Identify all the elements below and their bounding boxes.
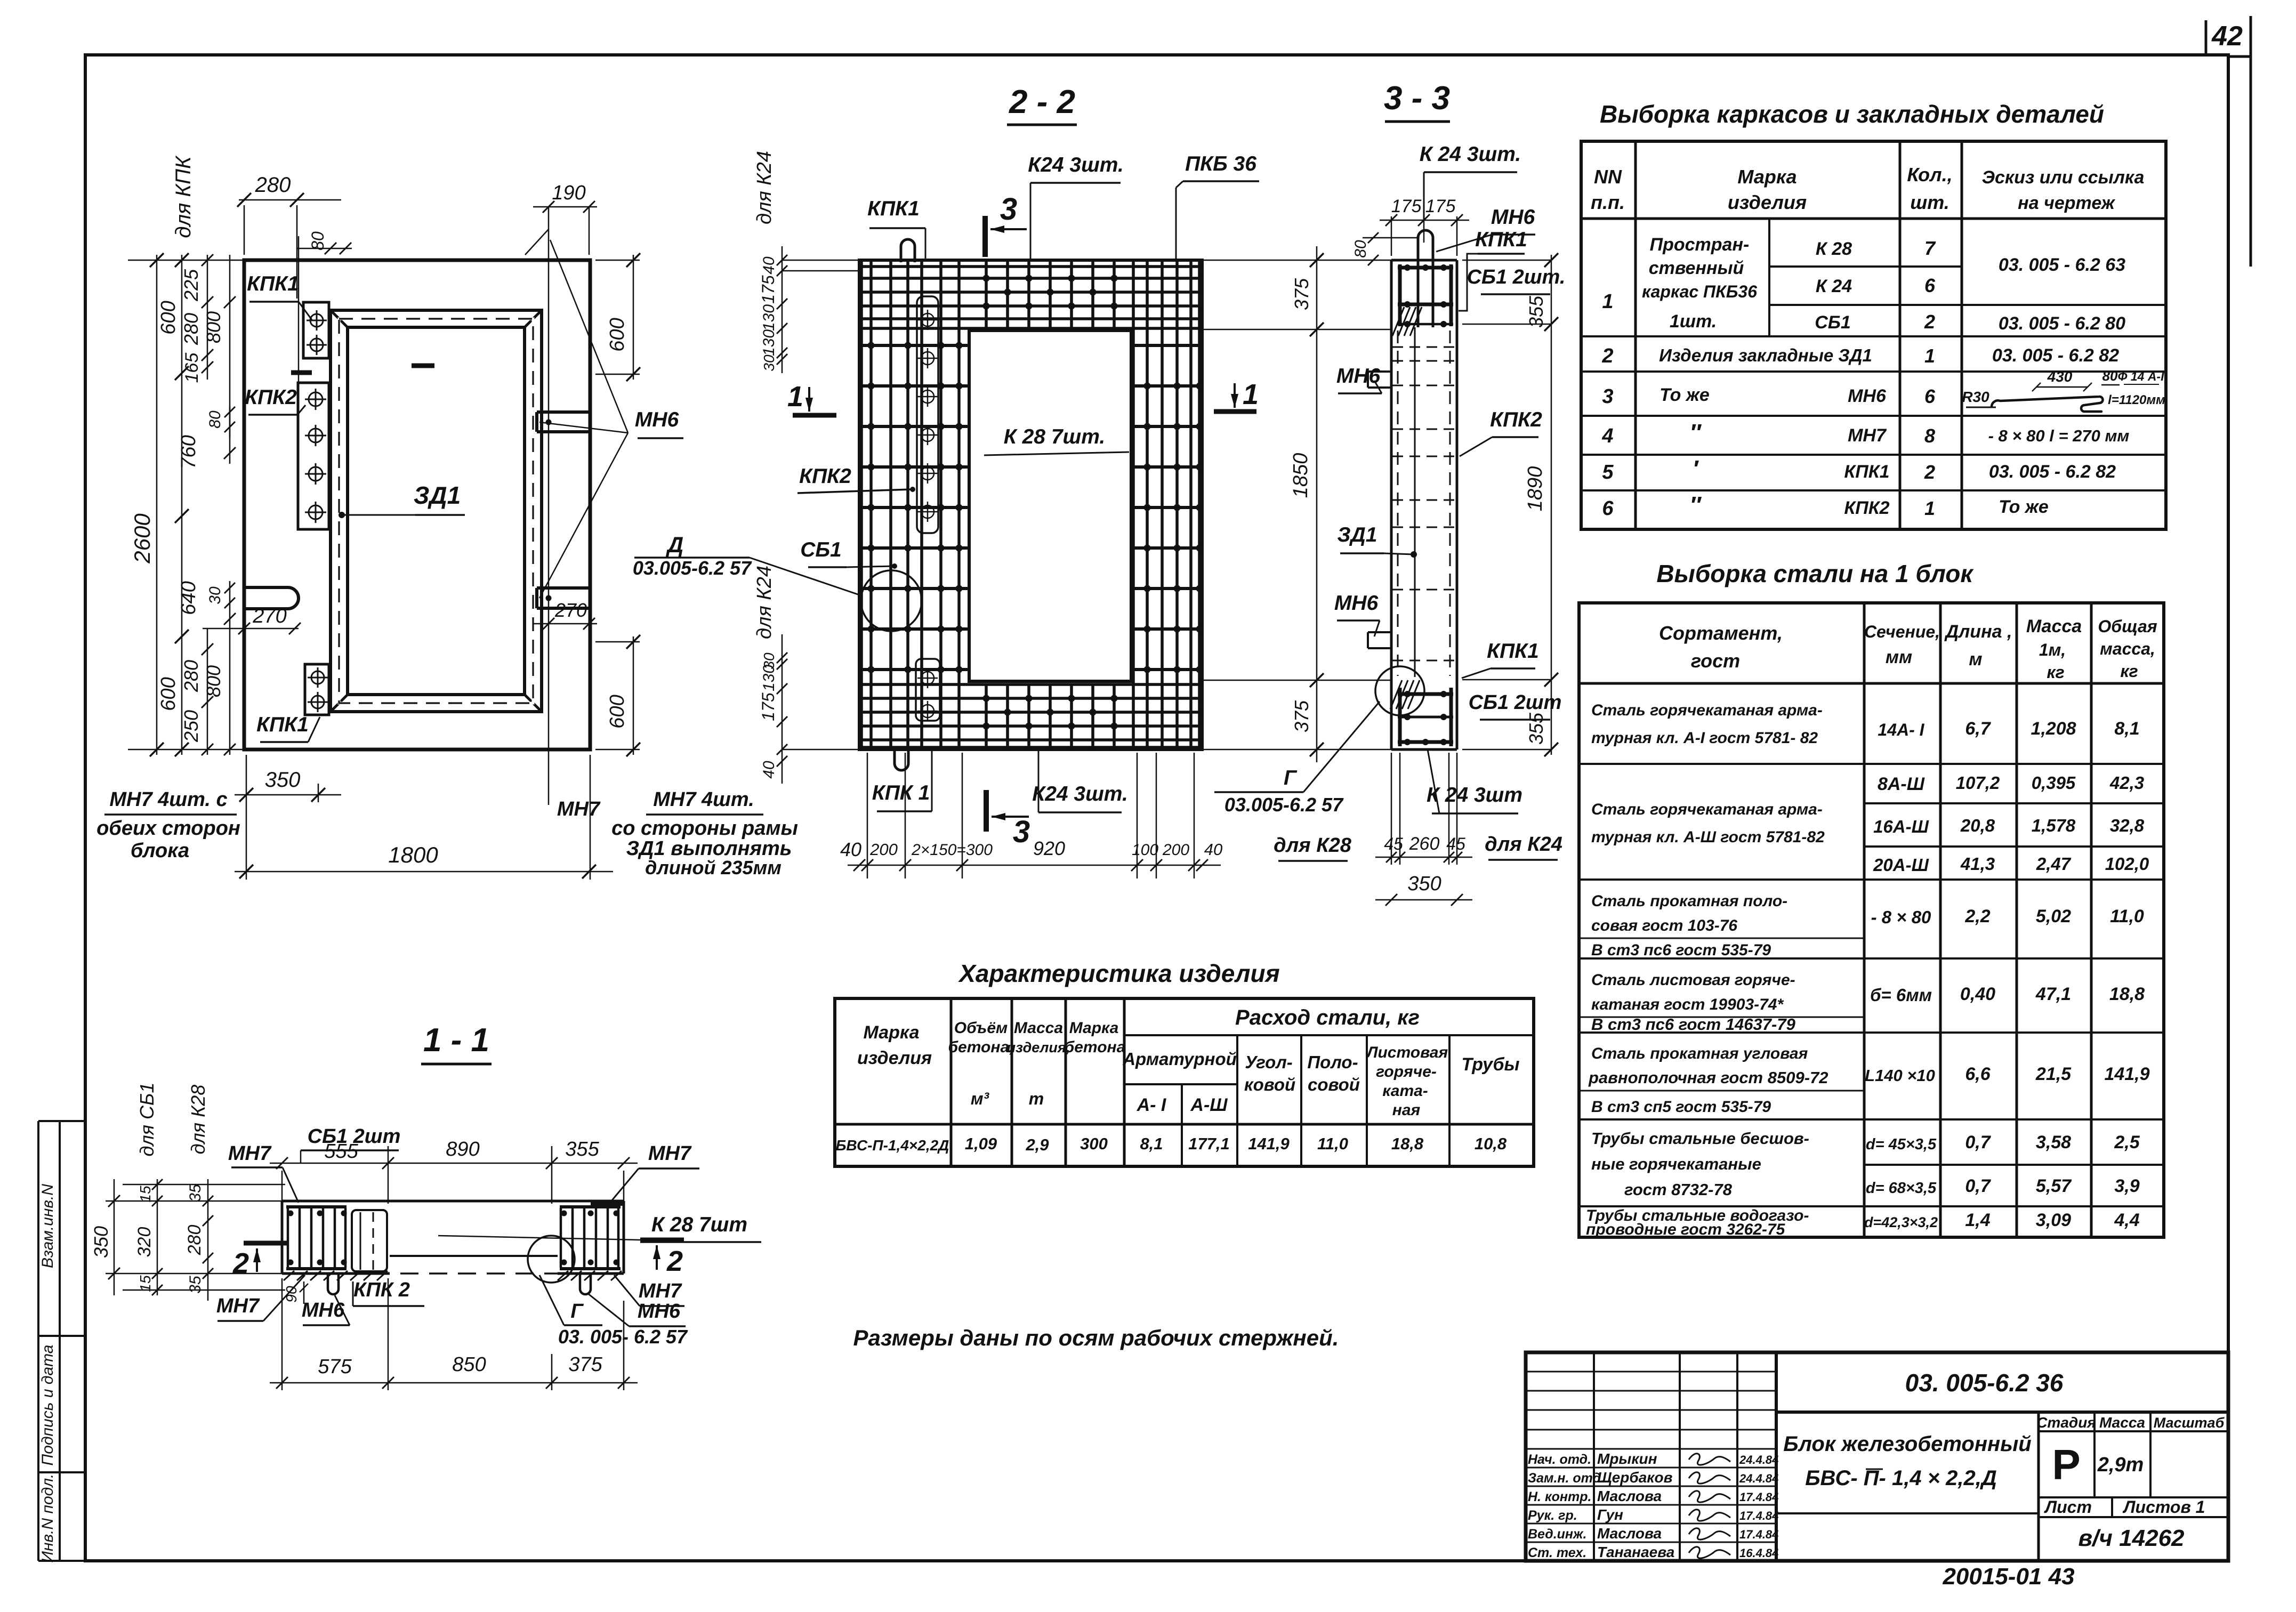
label KPK1 (3-3 right bottom) [1462, 640, 1539, 678]
svg-text:03.005-6.2 57: 03.005-6.2 57 [1224, 794, 1344, 816]
svg-text:Объём: Объём [954, 1019, 1008, 1037]
table 1 row 1 [1602, 235, 2125, 334]
svg-text:совая гост 103-76: совая гост 103-76 [1591, 917, 1737, 934]
table 2 row angle steel [1579, 1045, 2150, 1116]
svg-text:КПК1: КПК1 [1475, 228, 1527, 251]
svg-text:2 - 2: 2 - 2 [1009, 84, 1075, 120]
svg-text:280: 280 [255, 173, 291, 197]
svg-text:47,1: 47,1 [2035, 984, 2071, 1004]
svg-text:Длина ,: Длина , [1944, 622, 2012, 642]
svg-text:850: 850 [452, 1353, 486, 1376]
1-1 label MN7 top left [228, 1142, 299, 1203]
svg-text:03. 005 - 6.2 80: 03. 005 - 6.2 80 [1999, 313, 2125, 334]
label SB1 2sht (3-3 top right) [1467, 266, 1566, 294]
svg-text:для К24: для К24 [1485, 833, 1562, 856]
1-1 label MN7 bottom left [216, 1275, 305, 1321]
3-3 top dimension 175/175 [1380, 196, 1469, 256]
svg-text:1,09: 1,09 [965, 1134, 997, 1153]
svg-text:100: 100 [1132, 841, 1158, 859]
svg-text:600: 600 [157, 677, 180, 711]
svg-text:совой: совой [1308, 1075, 1360, 1094]
svg-text:Выборка стали на 1: Выборка стали на 1 блок [1656, 560, 1974, 587]
svg-text:гост: гост [1691, 650, 1740, 672]
svg-text:3: 3 [1000, 192, 1017, 227]
svg-text:для КПК: для КПК [172, 155, 195, 238]
table 2 row strip steel [1579, 892, 2144, 959]
label PKB36 with leader [1176, 152, 1259, 260]
svg-text:107,2: 107,2 [1956, 773, 2000, 793]
svg-text:17.4.84: 17.4.84 [1739, 1490, 1778, 1504]
svg-text:КПК1: КПК1 [867, 197, 920, 220]
svg-text:Марка: Марка [1069, 1019, 1119, 1037]
svg-text:изделия,: изделия, [1007, 1039, 1070, 1055]
dimension chain 600/760/640/600 [157, 253, 200, 756]
svg-text:3: 3 [1602, 385, 1613, 408]
1-1 label SB1 2sht [301, 1125, 400, 1163]
svg-text:320: 320 [134, 1227, 155, 1258]
svg-text:К 24: К 24 [1816, 276, 1852, 296]
svg-text:430: 430 [2047, 368, 2073, 385]
callout D 03.005-6.2 57 (front) [633, 532, 863, 596]
svg-text:15: 15 [137, 1186, 154, 1203]
svg-text:ная: ная [1392, 1101, 1421, 1119]
svg-text:м³: м³ [971, 1089, 990, 1108]
label MN6 (3-3 left top) [1336, 365, 1382, 393]
table 2 header [1659, 616, 2157, 682]
table 2 row A-I [1591, 702, 2140, 747]
svg-text:11,0: 11,0 [1317, 1134, 1348, 1153]
right dimension 270 / 600 bottom [533, 599, 640, 756]
svg-text:130: 130 [760, 304, 778, 331]
svg-text:4,4: 4,4 [2114, 1210, 2139, 1230]
svg-text:А-Ш: А-Ш [1190, 1095, 1228, 1115]
svg-text:Лист: Лист [2044, 1497, 2092, 1517]
svg-text:1850: 1850 [1290, 453, 1312, 498]
svg-text:″: ″ [1689, 492, 1702, 518]
svg-text:20015-01 43: 20015-01 43 [1942, 1563, 2074, 1590]
svg-text:Сталь прокатная угловая: Сталь прокатная угловая [1591, 1045, 1808, 1062]
detail circle G on 3-3 [1375, 666, 1424, 715]
svg-text:41,3: 41,3 [1960, 854, 1995, 874]
svg-text:760: 760 [178, 435, 200, 469]
svg-text:Взам.инв.N: Взам.инв.N [39, 1184, 57, 1268]
svg-text:0,40: 0,40 [1960, 984, 1995, 1004]
svg-text:375: 375 [1291, 278, 1312, 310]
dimension chain 800 / 80 / 30 [203, 255, 301, 755]
svg-text:d=42,3×3,2: d=42,3×3,2 [1864, 1214, 1938, 1230]
svg-text:350: 350 [265, 768, 301, 792]
svg-text:Простран-: Простран- [1650, 235, 1750, 255]
svg-text:обеих сторон: обеих сторон [96, 817, 240, 840]
svg-text:45: 45 [1446, 834, 1465, 853]
top dimension 280 [237, 173, 341, 299]
svg-text:640: 640 [178, 581, 200, 615]
svg-text:МН6: МН6 [1334, 592, 1379, 615]
svg-text:Листовая: Листовая [1366, 1044, 1448, 1061]
svg-text:кг: кг [2047, 663, 2064, 682]
svg-text:МН7: МН7 [639, 1280, 682, 1302]
svg-text:МН7: МН7 [216, 1295, 260, 1317]
svg-text:l=1120мм: l=1120мм [2108, 393, 2165, 407]
svg-text:А- I: А- I [1137, 1095, 1167, 1115]
label K24 3sht bottom [1032, 749, 1128, 812]
svg-text:КПК 1: КПК 1 [872, 781, 930, 804]
svg-text:Сечение,: Сечение, [1864, 622, 1940, 641]
2-2 left dimension chain [753, 151, 859, 784]
svg-text:32,8: 32,8 [2110, 816, 2145, 835]
svg-text:280: 280 [180, 313, 202, 345]
1-1 labels MN7/MN6 right [587, 1275, 686, 1326]
1-1 label KPK2 [353, 1279, 424, 1306]
svg-text:2,9: 2,9 [1025, 1135, 1049, 1154]
label K24 3sht (3-3 top) [1420, 143, 1521, 220]
detail circle D on 2-2 [861, 570, 922, 631]
section marker 1 left [787, 381, 836, 415]
svg-text:45: 45 [1384, 834, 1403, 853]
top dimension 190 [525, 182, 597, 805]
svg-text:18,8: 18,8 [2109, 984, 2145, 1004]
svg-text:10,8: 10,8 [1475, 1134, 1507, 1153]
right dimension 600 top [595, 253, 640, 381]
top dimension 80 [297, 231, 352, 254]
svg-text:б= 6мм: б= 6мм [1870, 985, 1932, 1005]
svg-text:для К24: для К24 [753, 151, 776, 224]
svg-text:проводные гост 3262-75: проводные гост 3262-75 [1586, 1221, 1786, 1238]
svg-text:ковой: ковой [1244, 1075, 1295, 1094]
title block signature grid [1526, 1352, 1776, 1561]
svg-text:Листов 1: Листов 1 [2123, 1497, 2205, 1517]
3-3 bottom cage SB1 [1390, 680, 1453, 746]
svg-text:МН6: МН6 [1491, 206, 1535, 229]
label dlya K28 [1274, 834, 1352, 861]
svg-text:К 28 7шт: К 28 7шт [651, 1213, 747, 1236]
svg-text:20А-Ш: 20А-Ш [1873, 855, 1929, 875]
svg-text:Трубы стальные бесшов-: Трубы стальные бесшов- [1591, 1129, 1809, 1148]
svg-text:355: 355 [565, 1138, 599, 1160]
svg-text:Мрыкин: Мрыкин [1597, 1450, 1657, 1467]
3-3 MN6 hairpin top [1418, 230, 1433, 327]
svg-text:190: 190 [552, 182, 585, 204]
table 1 row 4 [1601, 420, 2129, 447]
svg-text:350: 350 [1407, 873, 1441, 895]
svg-text:блока: блока [131, 840, 189, 862]
section 2-2 title [1007, 84, 1077, 125]
svg-text:NN: NN [1594, 166, 1622, 188]
svg-text:равнополочная гост 8509-72: равнополочная гост 8509-72 [1588, 1068, 1828, 1087]
svg-text:К24 3шт.: К24 3шт. [1032, 783, 1128, 805]
note MN7 4sht both sides [96, 788, 240, 862]
svg-text:1,4: 1,4 [1965, 1210, 1990, 1230]
svg-text:3,58: 3,58 [2036, 1132, 2071, 1152]
svg-text:Г: Г [1284, 767, 1298, 789]
svg-text:1890: 1890 [1524, 466, 1546, 512]
svg-text:МН7: МН7 [1848, 425, 1887, 446]
1-1 bottom dimension chain 575/850/375 [270, 1278, 638, 1390]
2-2 bottom dimension chain [840, 753, 1222, 878]
svg-text:03. 005 - 6.2 63: 03. 005 - 6.2 63 [1999, 255, 2125, 275]
svg-text:Сталь горячекатаная арма-: Сталь горячекатаная арма- [1591, 801, 1823, 818]
svg-text:катаная гост 19903-74*: катаная гост 19903-74* [1591, 996, 1784, 1013]
label K24 3sht top with leader [1028, 154, 1124, 260]
dimension chain 2600 [128, 253, 244, 756]
svg-text:Сталь прокатная поло-: Сталь прокатная поло- [1591, 892, 1787, 910]
dimension chain 375/1850/375 [1202, 246, 1391, 762]
1-1 left cage [284, 1207, 388, 1280]
label MN6 with three leaders [539, 240, 683, 598]
svg-text:175: 175 [1391, 196, 1422, 216]
svg-text:5,02: 5,02 [2036, 906, 2071, 926]
label MN6 (3-3 left bottom) [1334, 592, 1380, 636]
svg-text:d= 45×3,5: d= 45×3,5 [1866, 1136, 1937, 1153]
note MN7 right [557, 788, 798, 878]
svg-text:То же: То же [1999, 497, 2049, 517]
svg-text:Тананаева: Тананаева [1597, 1544, 1674, 1560]
svg-text:Гун: Гун [1597, 1506, 1623, 1523]
svg-text:2,47: 2,47 [2036, 854, 2072, 874]
title block signatures text [1528, 1450, 1778, 1560]
svg-text:2: 2 [1601, 345, 1613, 367]
label dlya K24 [1485, 833, 1562, 860]
svg-text:В ст3 сп5 гост 535-79: В ст3 сп5 гост 535-79 [1591, 1098, 1771, 1116]
svg-text:165: 165 [182, 353, 202, 383]
svg-text:2,2: 2,2 [1964, 906, 1990, 926]
svg-text:2,5: 2,5 [2114, 1132, 2140, 1152]
svg-text:141,9: 141,9 [2104, 1064, 2149, 1084]
table 1 row 6 [1602, 492, 2048, 520]
svg-text:270: 270 [252, 605, 286, 627]
svg-text:30: 30 [206, 586, 224, 604]
svg-text:6: 6 [1924, 385, 1936, 407]
svg-text:16.4.84: 16.4.84 [1739, 1546, 1778, 1560]
callout G 03.005-6.2 57 [1214, 702, 1380, 816]
svg-text:БВС- П- 1,4 × 2,2,Д: БВС- П- 1,4 × 2,2,Д [1805, 1466, 1997, 1490]
label K24 3sht (3-3 bottom) [1427, 749, 1522, 813]
svg-text:КПК1: КПК1 [1844, 462, 1889, 482]
label KPK1 bottom [256, 713, 320, 742]
svg-text:БВС-П-1,4×2,2Д: БВС-П-1,4×2,2Д [836, 1137, 949, 1154]
svg-text:3,09: 3,09 [2036, 1210, 2071, 1230]
svg-text:8,1: 8,1 [1140, 1134, 1163, 1153]
svg-text:375: 375 [1291, 700, 1312, 732]
svg-text:890: 890 [446, 1138, 479, 1160]
1-1 label K28 7sht [438, 1213, 761, 1242]
svg-text:260: 260 [1409, 834, 1440, 854]
plate KPK2 [298, 383, 329, 529]
svg-text:16А-Ш: 16А-Ш [1873, 817, 1929, 836]
table 2: steel selection [1579, 603, 2164, 1237]
svg-text:0,7: 0,7 [1965, 1176, 1991, 1196]
svg-text:Щербаков: Щербаков [1597, 1469, 1673, 1486]
svg-text:мм: мм [1886, 647, 1912, 667]
svg-text:1,578: 1,578 [2032, 816, 2076, 835]
3-3 MN6 left tabs [1368, 372, 1391, 648]
3-3 top cage SB1 [1392, 264, 1453, 336]
svg-text:Эскиз или ссылка: Эскиз или ссылка [1982, 167, 2145, 188]
svg-text:Вед.инж.: Вед.инж. [1528, 1527, 1586, 1542]
3-3 right chain 355/1890/355 [1462, 253, 1558, 756]
svg-text:Г: Г [570, 1300, 584, 1323]
svg-text:1: 1 [1924, 345, 1935, 367]
svg-text:15: 15 [137, 1275, 154, 1292]
svg-text:1: 1 [787, 381, 803, 413]
vertical label for KPK [172, 155, 299, 384]
svg-text:Подпись и дата: Подпись и дата [39, 1345, 57, 1466]
svg-text:гост 8732-78: гост 8732-78 [1624, 1180, 1733, 1199]
svg-text:355: 355 [1525, 295, 1547, 328]
section 2-2 rebar grid [860, 261, 1203, 748]
svg-text:Блок железобетонный: Блок железобетонный [1783, 1432, 2032, 1456]
svg-text:1,208: 1,208 [2031, 719, 2076, 739]
svg-text:6: 6 [1924, 275, 1936, 296]
svg-text:Сталь горячекатаная арма-: Сталь горячекатаная арма- [1591, 702, 1823, 719]
svg-text:КПК1: КПК1 [247, 272, 299, 295]
svg-text:Трубы: Трубы [1461, 1054, 1519, 1075]
svg-text:СБ1: СБ1 [1815, 312, 1851, 333]
3-3 column internals [1392, 327, 1456, 677]
svg-text:200: 200 [1162, 841, 1189, 859]
anchor MN6 right tabs [537, 412, 590, 608]
svg-text:масса,: масса, [2100, 639, 2155, 658]
label KPK2 (2-2) [797, 465, 915, 493]
section marker 3 bottom [986, 790, 1030, 849]
svg-text:- 8 × 80 l = 270 мм: - 8 × 80 l = 270 мм [1988, 426, 2130, 445]
left margin stamp column [38, 1121, 86, 1563]
1-1 left dim chain 350/320/15/15 [90, 1083, 285, 1295]
svg-text:- 8 × 80: - 8 × 80 [1871, 907, 1931, 927]
svg-text:2×150=300: 2×150=300 [911, 841, 993, 859]
front view: embedded frame ZD1 (door frame) [331, 310, 542, 712]
svg-text:280: 280 [184, 1225, 205, 1256]
svg-text:Стадия: Стадия [2036, 1414, 2096, 1431]
svg-text:К 24 3шт: К 24 3шт [1427, 784, 1522, 807]
svg-text:КПК2: КПК2 [799, 465, 851, 488]
svg-text:каркас ПКБ36: каркас ПКБ36 [1642, 282, 1757, 301]
svg-text:КПК2: КПК2 [1844, 498, 1889, 518]
svg-text:Ст. тех.: Ст. тех. [1528, 1545, 1586, 1560]
svg-text:КПК1: КПК1 [1487, 640, 1539, 663]
title block list row [2039, 1497, 2228, 1517]
label SB1 with leader to circle [800, 538, 897, 569]
svg-text:для СБ1: для СБ1 [136, 1083, 158, 1157]
section 2-2 embedded channel KPK strip [916, 296, 940, 721]
1-1 top dimension chain 555/890/355 [270, 1138, 638, 1204]
svg-text:Марка: Марка [864, 1022, 920, 1043]
1-1 second dim chain 35/280/35 [184, 1085, 213, 1301]
svg-text:177,1: 177,1 [1188, 1134, 1230, 1153]
table 1 header text [1591, 164, 2144, 213]
svg-text:141,9: 141,9 [1248, 1134, 1290, 1153]
table 2 row A-III [1591, 773, 2149, 875]
svg-text:изделия: изделия [1728, 191, 1807, 213]
svg-text:СБ1 2шт: СБ1 2шт [308, 1125, 401, 1148]
svg-text:горяче-: горяче- [1376, 1063, 1437, 1081]
svg-text:со стороны рамы: со стороны рамы [611, 817, 798, 840]
svg-text:для К28: для К28 [187, 1085, 209, 1155]
svg-text:1м,: 1м, [2039, 640, 2066, 659]
svg-text:1шт.: 1шт. [1670, 311, 1717, 332]
svg-text:d= 68×3,5: d= 68×3,5 [1866, 1180, 1937, 1197]
svg-text:Сталь листовая горяче-: Сталь листовая горяче- [1591, 971, 1795, 989]
svg-text:1800: 1800 [388, 842, 438, 867]
svg-text:17.4.84: 17.4.84 [1739, 1528, 1778, 1541]
svg-text:Характеристика изделия: Характеристика изделия [957, 960, 1280, 987]
svg-text:″: ″ [1689, 420, 1702, 446]
svg-text:Расход стали, кг: Расход стали, кг [1235, 1006, 1420, 1029]
label MN6 (3-3 top right) [1436, 206, 1535, 252]
svg-text:ственный: ственный [1649, 258, 1744, 278]
svg-text:8: 8 [1924, 425, 1935, 447]
svg-text:L140 ×10: L140 ×10 [1865, 1066, 1935, 1085]
svg-text:42,3: 42,3 [2109, 773, 2144, 793]
svg-text:600: 600 [157, 301, 180, 334]
svg-text:СБ1 2шт.: СБ1 2шт. [1467, 266, 1566, 288]
svg-text:Масса: Масса [2026, 616, 2082, 636]
table 1 row 5 [1602, 456, 2116, 483]
svg-text:Изделия закладные ЗД1: Изделия закладные ЗД1 [1659, 345, 1872, 365]
anchor MN7 marks [291, 366, 434, 373]
svg-text:МН7 4шт.: МН7 4шт. [653, 788, 754, 811]
table 3 data row [836, 1134, 1507, 1154]
label KPK1 (2-2 top) [867, 197, 925, 260]
svg-text:175: 175 [1425, 196, 1456, 216]
svg-text:3 - 3: 3 - 3 [1384, 80, 1450, 117]
svg-text:Нач. отд.: Нач. отд. [1528, 1452, 1591, 1467]
svg-text:4: 4 [1601, 425, 1613, 447]
svg-text:Маслова: Маслова [1597, 1525, 1662, 1542]
svg-text:МН7 4шт. с: МН7 4шт. с [109, 788, 227, 811]
svg-text:МН6: МН6 [1848, 386, 1887, 406]
svg-text:К24 3шт.: К24 3шт. [1028, 154, 1124, 176]
svg-text:175: 175 [759, 275, 778, 304]
svg-text:03. 005 - 6.2 82: 03. 005 - 6.2 82 [1992, 345, 2119, 366]
section 2-2 MN6 hairpins top and bottom [895, 239, 915, 770]
3-3 dimension 350 [1375, 873, 1472, 906]
svg-text:80: 80 [206, 410, 224, 429]
label KPK1 (2-2 bottom) [872, 749, 932, 811]
1-1 section marker 2 left [232, 1243, 287, 1279]
svg-text:03. 005 - 6.2 82: 03. 005 - 6.2 82 [1989, 462, 2116, 482]
label ZD1 (3-3 left) [1338, 523, 1417, 558]
svg-text:270: 270 [554, 599, 587, 621]
title block outline [1526, 1352, 2228, 1561]
title block stage/mass/scale [2036, 1412, 2228, 1497]
svg-text:130: 130 [760, 665, 778, 691]
svg-text:Д: Д [666, 532, 683, 557]
svg-text:130: 130 [760, 329, 778, 356]
svg-text:ЗД1: ЗД1 [1338, 523, 1377, 546]
label KPK2 (3-3 right) [1460, 408, 1542, 456]
svg-text:Р: Р [2052, 1441, 2080, 1488]
svg-text:КПК2: КПК2 [245, 386, 297, 409]
svg-text:6,7: 6,7 [1965, 719, 1991, 739]
svg-text:0,7: 0,7 [1965, 1132, 1991, 1152]
section 1-1 slab outline [282, 1201, 624, 1274]
svg-text:1: 1 [1924, 497, 1935, 519]
svg-text:21,5: 21,5 [2035, 1064, 2072, 1084]
svg-text:Выборка каркасов и заклад: Выборка каркасов и закладных деталей [1600, 100, 2104, 128]
svg-text:К 28: К 28 [1816, 239, 1852, 259]
svg-text:В ст3 пс6 гост 535-79: В ст3 пс6 гост 535-79 [1591, 941, 1771, 959]
svg-text:30: 30 [761, 354, 777, 372]
svg-text:225: 225 [180, 269, 202, 302]
svg-text:для К24: для К24 [753, 566, 776, 639]
table 3 header [857, 1006, 1520, 1119]
svg-text:600: 600 [606, 695, 629, 728]
svg-text:102,0: 102,0 [2105, 854, 2149, 874]
svg-text:200: 200 [869, 840, 898, 859]
svg-text:м: м [1969, 649, 1982, 670]
page number 42 top right [2206, 16, 2251, 267]
